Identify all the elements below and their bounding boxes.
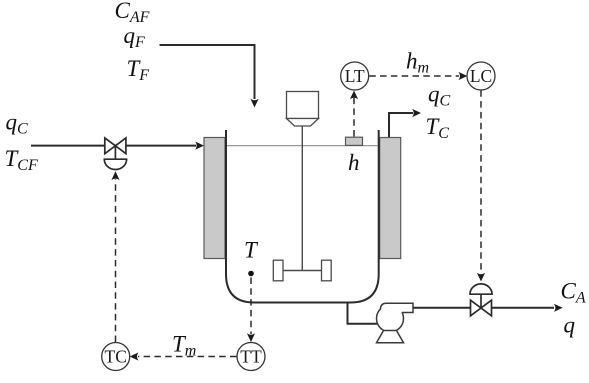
svg-text:TT: TT xyxy=(240,346,262,366)
svg-text:T: T xyxy=(244,238,259,263)
svg-text:q: q xyxy=(564,313,576,338)
svg-text:LT: LT xyxy=(345,66,365,86)
svg-text:LC: LC xyxy=(470,66,492,86)
svg-text:TC: TC xyxy=(105,346,127,366)
svg-text:h: h xyxy=(348,150,360,175)
